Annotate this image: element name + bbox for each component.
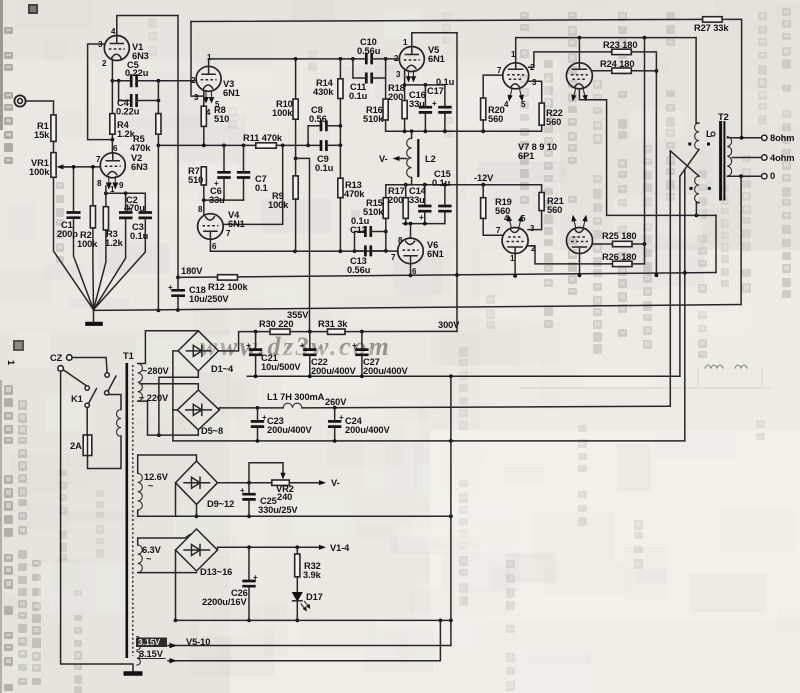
label C18 xyxy=(189,285,229,304)
node R4 bottom / V2 plate xyxy=(111,134,115,153)
capacitor C10 xyxy=(366,53,399,64)
svg-text:1: 1 xyxy=(510,254,515,263)
label VR2 xyxy=(276,484,294,502)
HT filter ground rail xyxy=(247,374,680,378)
label 260V xyxy=(325,397,347,407)
label R11 xyxy=(243,133,283,143)
8 ohm output xyxy=(727,135,767,140)
label 355V xyxy=(287,310,309,320)
svg-text:+: + xyxy=(339,413,344,422)
svg-text:470k: 470k xyxy=(130,143,151,153)
svg-text:-12V: -12V xyxy=(474,173,494,183)
svg-text:V-: V- xyxy=(379,154,388,164)
wire input to R1 xyxy=(26,101,54,115)
svg-text:+: + xyxy=(352,341,357,350)
capacitor C4 xyxy=(131,94,158,107)
resistor R5 xyxy=(156,81,161,134)
label C8 xyxy=(309,105,327,124)
capacitor C17 xyxy=(438,85,451,131)
label C7 xyxy=(255,174,268,193)
input jack xyxy=(14,95,25,106)
wire D1-4 AC bottom xyxy=(159,371,198,435)
V4 pin numbers xyxy=(198,205,231,251)
wire 280V tap to D1-4 xyxy=(138,331,199,364)
svg-text:240: 240 xyxy=(277,492,292,502)
svg-text:K1: K1 xyxy=(71,394,83,404)
svg-text:0.56u: 0.56u xyxy=(357,46,381,56)
label R30 xyxy=(259,319,293,329)
svg-text:8: 8 xyxy=(97,179,102,188)
svg-text:1: 1 xyxy=(511,50,516,59)
svg-text:R12 100k: R12 100k xyxy=(208,282,248,292)
260V ground rail xyxy=(173,439,685,443)
label C11 xyxy=(349,82,368,101)
svg-text:L2: L2 xyxy=(425,154,436,164)
svg-text:200: 200 xyxy=(388,195,403,205)
label D17 xyxy=(306,592,323,602)
resistor R11 xyxy=(256,143,321,148)
svg-text:1: 1 xyxy=(110,185,115,194)
svg-text:6: 6 xyxy=(412,267,417,276)
resistor R24 xyxy=(612,68,657,73)
label C5 xyxy=(125,60,149,78)
svg-text:R30 220: R30 220 xyxy=(259,319,293,329)
svg-text:200u/400V: 200u/400V xyxy=(363,366,408,376)
label R2 xyxy=(77,230,98,249)
resistor R22 xyxy=(528,81,544,131)
tube V9 (6P1 inverted) xyxy=(502,228,528,254)
label 3.15V boxed xyxy=(136,637,167,647)
label R24 xyxy=(600,59,634,69)
label R12 xyxy=(208,282,248,292)
resistor R16 xyxy=(383,59,388,131)
label R32 xyxy=(303,561,322,580)
wire V8 top to plate rail xyxy=(578,38,580,63)
label D1-4 xyxy=(211,364,234,374)
label L2 xyxy=(425,154,436,164)
label 180V xyxy=(181,266,203,276)
label R22 xyxy=(546,108,563,127)
capacitor C16 (electrolytic) xyxy=(419,85,437,131)
label V4 xyxy=(228,210,245,229)
svg-text:+: + xyxy=(246,341,251,350)
svg-text:+: + xyxy=(300,341,305,350)
wire V9 plate to bus xyxy=(513,254,517,278)
label V1-4 xyxy=(330,543,350,553)
svg-text:+: + xyxy=(253,573,258,582)
355V riser xyxy=(296,158,310,331)
svg-text:R23 180: R23 180 xyxy=(603,40,637,50)
V8 cathode arrows xyxy=(571,90,587,102)
label C2 xyxy=(124,195,145,213)
wire D1-4 minus link xyxy=(173,351,178,441)
svg-text:D17: D17 xyxy=(306,592,323,602)
svg-text:3: 3 xyxy=(532,78,537,87)
bridge D1-4 xyxy=(178,331,218,371)
label R19 xyxy=(495,197,512,216)
figure number xyxy=(6,340,24,365)
heater line lower xyxy=(168,620,440,663)
label C26 xyxy=(202,588,248,607)
resistor R19 xyxy=(481,185,503,236)
label C14 xyxy=(409,186,427,205)
T1 primary winding xyxy=(109,395,122,437)
label V- right xyxy=(331,478,340,488)
svg-text:2: 2 xyxy=(394,54,399,63)
label C22 xyxy=(311,357,356,376)
wire V7 plate top xyxy=(515,38,517,63)
svg-text:470k: 470k xyxy=(344,189,365,199)
node C5 tap xyxy=(111,79,130,83)
wire CZ top to switch xyxy=(72,358,107,373)
capacitor C27 (electrolytic) xyxy=(352,332,369,377)
wire V3 plate to top node xyxy=(208,59,210,67)
svg-text:33u: 33u xyxy=(209,195,225,205)
capacitor C8 xyxy=(308,120,342,145)
svg-text:R24 180: R24 180 xyxy=(600,59,634,69)
wire V8 bottom jog xyxy=(579,89,606,216)
label R31 xyxy=(318,319,348,329)
svg-text:4: 4 xyxy=(206,108,211,117)
0 ohm output xyxy=(727,174,767,179)
300V riser vertical xyxy=(455,33,459,332)
label D5-8 xyxy=(201,426,223,436)
V3 pin numbers xyxy=(191,53,220,117)
svg-text:6N1: 6N1 xyxy=(228,219,245,229)
svg-text:L1 7H 300mA: L1 7H 300mA xyxy=(267,392,325,402)
svg-text:6N1: 6N1 xyxy=(223,88,240,98)
tube V6 (inverted) xyxy=(398,224,424,264)
label R25 xyxy=(602,231,636,241)
svg-text:6.3V: 6.3V xyxy=(142,545,162,555)
svg-text:7: 7 xyxy=(96,155,101,164)
ground bus xyxy=(94,305,742,312)
wire V3 plate rail xyxy=(209,57,366,61)
capacitor C1 xyxy=(67,165,94,310)
V1 pin numbers xyxy=(98,27,116,68)
T2 crossover wires xyxy=(670,149,699,406)
wire V1 grid loop xyxy=(88,44,113,140)
capacitor C7 xyxy=(237,145,250,200)
label C17 xyxy=(427,77,455,96)
svg-text:V-: V- xyxy=(331,478,340,488)
label 300V xyxy=(438,320,460,330)
svg-text:300V: 300V xyxy=(438,320,460,330)
svg-text:C17: C17 xyxy=(427,86,444,96)
wire R1 to VR1 xyxy=(53,141,55,152)
label R18 xyxy=(388,83,405,102)
svg-text:200: 200 xyxy=(388,92,403,102)
top feedback wire xyxy=(191,19,703,21)
svg-text:200u/400V: 200u/400V xyxy=(311,366,356,376)
capacitor C5 xyxy=(131,74,156,87)
label 220V xyxy=(139,393,169,403)
resistor R8 xyxy=(201,91,206,146)
svg-text:0.56u: 0.56u xyxy=(347,265,371,275)
wire C5/C4 right node to V3 grid xyxy=(157,79,197,103)
wire V4 plate bus xyxy=(210,239,398,253)
svg-text:6N1: 6N1 xyxy=(427,249,444,259)
svg-text:6: 6 xyxy=(212,242,217,251)
wire CZ bottom diagonal xyxy=(63,370,86,386)
svg-text:560: 560 xyxy=(546,117,561,127)
resistor R7 xyxy=(201,167,206,214)
label C27 xyxy=(363,357,408,376)
node C4 left connector xyxy=(117,79,130,101)
tube V8 (6P1) xyxy=(566,63,592,89)
label 3.15V underlined xyxy=(138,649,165,659)
resistor R27 xyxy=(703,17,742,138)
potentiometer VR1 xyxy=(51,153,70,178)
bias ground rail xyxy=(138,514,451,518)
capacitor C9 xyxy=(321,140,342,151)
wire V5 plate to 300V riser xyxy=(412,33,457,47)
svg-text:R25 180: R25 180 xyxy=(602,231,636,241)
wire D1-4 plus to R30 rail xyxy=(219,330,271,351)
svg-text:D5~8: D5~8 xyxy=(201,426,223,436)
resistor R23 xyxy=(612,49,659,277)
svg-text:4: 4 xyxy=(504,214,509,223)
svg-text:D13~16: D13~16 xyxy=(200,567,232,577)
capacitor C18 (electrolytic) xyxy=(168,277,185,310)
resistor R15 xyxy=(383,185,388,253)
T1 HV winding xyxy=(138,364,143,402)
svg-text:~: ~ xyxy=(148,481,154,491)
svg-text:7: 7 xyxy=(496,226,501,235)
wire V10 pin to R25 xyxy=(593,243,613,245)
output cathode bus xyxy=(386,129,542,133)
svg-text:+: + xyxy=(240,486,245,495)
transformer T2 primary upper xyxy=(695,38,699,150)
label 8ohm xyxy=(770,133,794,143)
resistor R10 xyxy=(293,59,298,176)
svg-text:3: 3 xyxy=(396,70,401,79)
V9 cathode arrows xyxy=(507,215,523,227)
screen riser R25/R26 xyxy=(644,38,646,244)
label 12.6V xyxy=(144,472,169,491)
T2 winding polarity marks xyxy=(688,143,711,190)
resistor R21 xyxy=(528,185,544,230)
svg-text:+: + xyxy=(419,213,424,222)
capacitor C15 xyxy=(438,185,451,224)
svg-text:100k: 100k xyxy=(29,167,50,177)
capacitor C13 xyxy=(355,245,386,256)
resistor R32 xyxy=(295,547,300,592)
svg-text:4: 4 xyxy=(504,100,509,109)
label 2A xyxy=(70,441,82,451)
svg-text:0.1u: 0.1u xyxy=(130,231,149,241)
svg-text:100k: 100k xyxy=(268,200,289,210)
wire V10 plate to bus xyxy=(578,254,582,278)
svg-text:430k: 430k xyxy=(313,87,334,97)
ground bus mid (R11 line) xyxy=(158,144,255,148)
resistor R2 xyxy=(90,165,95,310)
label C9 xyxy=(315,154,334,173)
V7 cathode arrows xyxy=(508,90,524,102)
svg-text:0.1u: 0.1u xyxy=(315,163,334,173)
label C1 xyxy=(57,220,78,239)
wire V8 pin2 to R24 xyxy=(592,70,611,72)
wire D9-12 AC bottom xyxy=(195,504,199,518)
svg-text:6P1: 6P1 xyxy=(518,151,534,161)
ground xyxy=(85,310,103,324)
wire V4 grid to R11 node xyxy=(223,145,283,224)
svg-text:1.2k: 1.2k xyxy=(105,238,124,248)
label R4 xyxy=(117,120,136,139)
label C13 xyxy=(347,256,371,275)
svg-text:R31 3k: R31 3k xyxy=(318,319,348,329)
svg-text:3.15V: 3.15V xyxy=(139,649,164,659)
resistor R14 xyxy=(338,59,343,178)
chassis ground bar xyxy=(124,671,143,675)
resistor R25 xyxy=(613,241,647,246)
riser 260V rail right xyxy=(683,170,687,441)
wire V7 grid left / R20 xyxy=(481,75,503,131)
resistor R3 xyxy=(94,207,109,310)
label V3 xyxy=(223,79,240,98)
wire V5 cathode node xyxy=(403,70,445,101)
label T2 xyxy=(718,112,729,122)
wire VR1 wiper to V2 grid xyxy=(63,166,100,168)
label R9 xyxy=(268,191,289,210)
label R8 xyxy=(214,105,229,124)
svg-text:2A: 2A xyxy=(70,441,82,451)
label R27 xyxy=(694,23,729,33)
svg-text:R26 180: R26 180 xyxy=(602,252,636,262)
svg-text:510k: 510k xyxy=(363,114,384,124)
LED D17 xyxy=(293,593,311,623)
4 ohm output xyxy=(732,155,767,160)
tube V4 (inverted) xyxy=(198,214,224,240)
capacitor C26 (electrolytic) xyxy=(242,547,258,622)
svg-text:CZ: CZ xyxy=(50,353,63,363)
label R3 xyxy=(105,229,124,248)
svg-text:7: 7 xyxy=(226,229,231,238)
label C21 xyxy=(261,353,301,372)
svg-text:0.22u: 0.22u xyxy=(116,107,140,117)
svg-text:260V: 260V xyxy=(325,397,347,407)
resistor R31 xyxy=(328,329,458,334)
label V5-10 xyxy=(186,637,210,647)
svg-text:9: 9 xyxy=(119,181,124,190)
wire D9-12 minus xyxy=(175,483,177,517)
wire VR2 to V- arrow xyxy=(289,480,326,485)
bridge D13-16 xyxy=(176,529,218,571)
resistor R12 xyxy=(218,275,238,280)
capacitor C22 (electrolytic) xyxy=(300,332,317,377)
svg-text:3.15V: 3.15V xyxy=(138,637,161,647)
switch K1 xyxy=(85,373,116,408)
label 4ohm xyxy=(770,153,794,163)
svg-text:8: 8 xyxy=(198,205,203,214)
svg-text:~: ~ xyxy=(146,554,152,564)
svg-text:3: 3 xyxy=(98,40,103,49)
tube V2 xyxy=(100,153,125,178)
svg-text:510: 510 xyxy=(214,114,229,124)
T2 secondary xyxy=(727,137,731,177)
label V5 xyxy=(428,45,445,64)
label -12V xyxy=(474,173,494,183)
svg-text:T1: T1 xyxy=(123,351,134,361)
svg-text:6N1: 6N1 xyxy=(428,54,445,64)
V5 cathode arrows xyxy=(406,71,416,83)
heater ground rail xyxy=(176,619,451,623)
svg-text:C12: C12 xyxy=(350,225,367,235)
wire D9-12 out to VR2 xyxy=(218,481,272,485)
transformer T2 primary lower xyxy=(695,176,699,215)
svg-text:6N3: 6N3 xyxy=(131,162,148,172)
svg-text:33u: 33u xyxy=(409,99,425,109)
svg-text:~ 220V: ~ 220V xyxy=(139,393,169,403)
label C23 xyxy=(267,416,312,435)
potentiometer VR2 xyxy=(249,463,289,486)
svg-text:180V: 180V xyxy=(181,266,203,276)
label C16 xyxy=(409,90,426,109)
capacitor C11 xyxy=(353,59,386,84)
capacitor C6 (electrolytic) xyxy=(214,145,231,200)
svg-text:4: 4 xyxy=(111,27,116,36)
label D13-16 xyxy=(200,567,232,577)
label V- at L2 xyxy=(379,154,388,164)
svg-text:1: 1 xyxy=(207,53,212,62)
heater line V5-10 upper xyxy=(168,643,451,648)
label R7 xyxy=(188,166,203,185)
wire V1 plate to 180V top rail xyxy=(117,16,178,36)
label C12 xyxy=(350,216,370,235)
svg-text:10u/250V: 10u/250V xyxy=(189,294,229,304)
T1 core xyxy=(127,363,133,658)
svg-text:15k: 15k xyxy=(34,130,50,140)
T1 12.6V winding xyxy=(138,455,197,516)
V- arrow at L2 xyxy=(393,156,407,161)
label R10 xyxy=(272,99,293,118)
tube V5 xyxy=(399,47,424,72)
tube V3 xyxy=(196,66,221,91)
label C25 xyxy=(258,496,298,515)
resistor R30 xyxy=(270,329,328,334)
svg-text:560: 560 xyxy=(547,205,562,215)
svg-text:4ohm: 4ohm xyxy=(770,153,794,163)
inductor L2 xyxy=(406,131,419,184)
label D9-12 xyxy=(207,499,234,509)
resistor R13 xyxy=(338,178,343,251)
label V6 xyxy=(427,240,444,259)
V5 pin numbers xyxy=(394,38,408,79)
feedback line to V3 pin3 xyxy=(191,22,204,97)
label C4 xyxy=(116,98,140,117)
label R15 xyxy=(363,198,384,217)
label 6.3V xyxy=(142,545,162,564)
180V vertical rail xyxy=(177,16,179,278)
capacitor C24 (electrolytic) xyxy=(328,408,344,441)
svg-text:8: 8 xyxy=(398,236,403,245)
label R23 xyxy=(603,40,637,50)
svg-text:7: 7 xyxy=(497,66,502,75)
svg-text:7: 7 xyxy=(391,253,396,262)
svg-text:R27 33k: R27 33k xyxy=(694,23,729,33)
svg-text:~280V: ~280V xyxy=(142,366,170,376)
capacitor C12 xyxy=(355,226,386,251)
label R14 xyxy=(313,78,334,97)
svg-text:D9~12: D9~12 xyxy=(207,499,234,509)
svg-text:V5-10: V5-10 xyxy=(186,637,210,647)
svg-text:200p: 200p xyxy=(57,229,78,239)
label T1 xyxy=(123,351,134,361)
capacitor C2 (electrolytic) xyxy=(94,204,133,310)
resistor R26 xyxy=(613,244,645,267)
svg-text:0.22u: 0.22u xyxy=(125,68,149,78)
svg-text:2: 2 xyxy=(531,244,536,253)
